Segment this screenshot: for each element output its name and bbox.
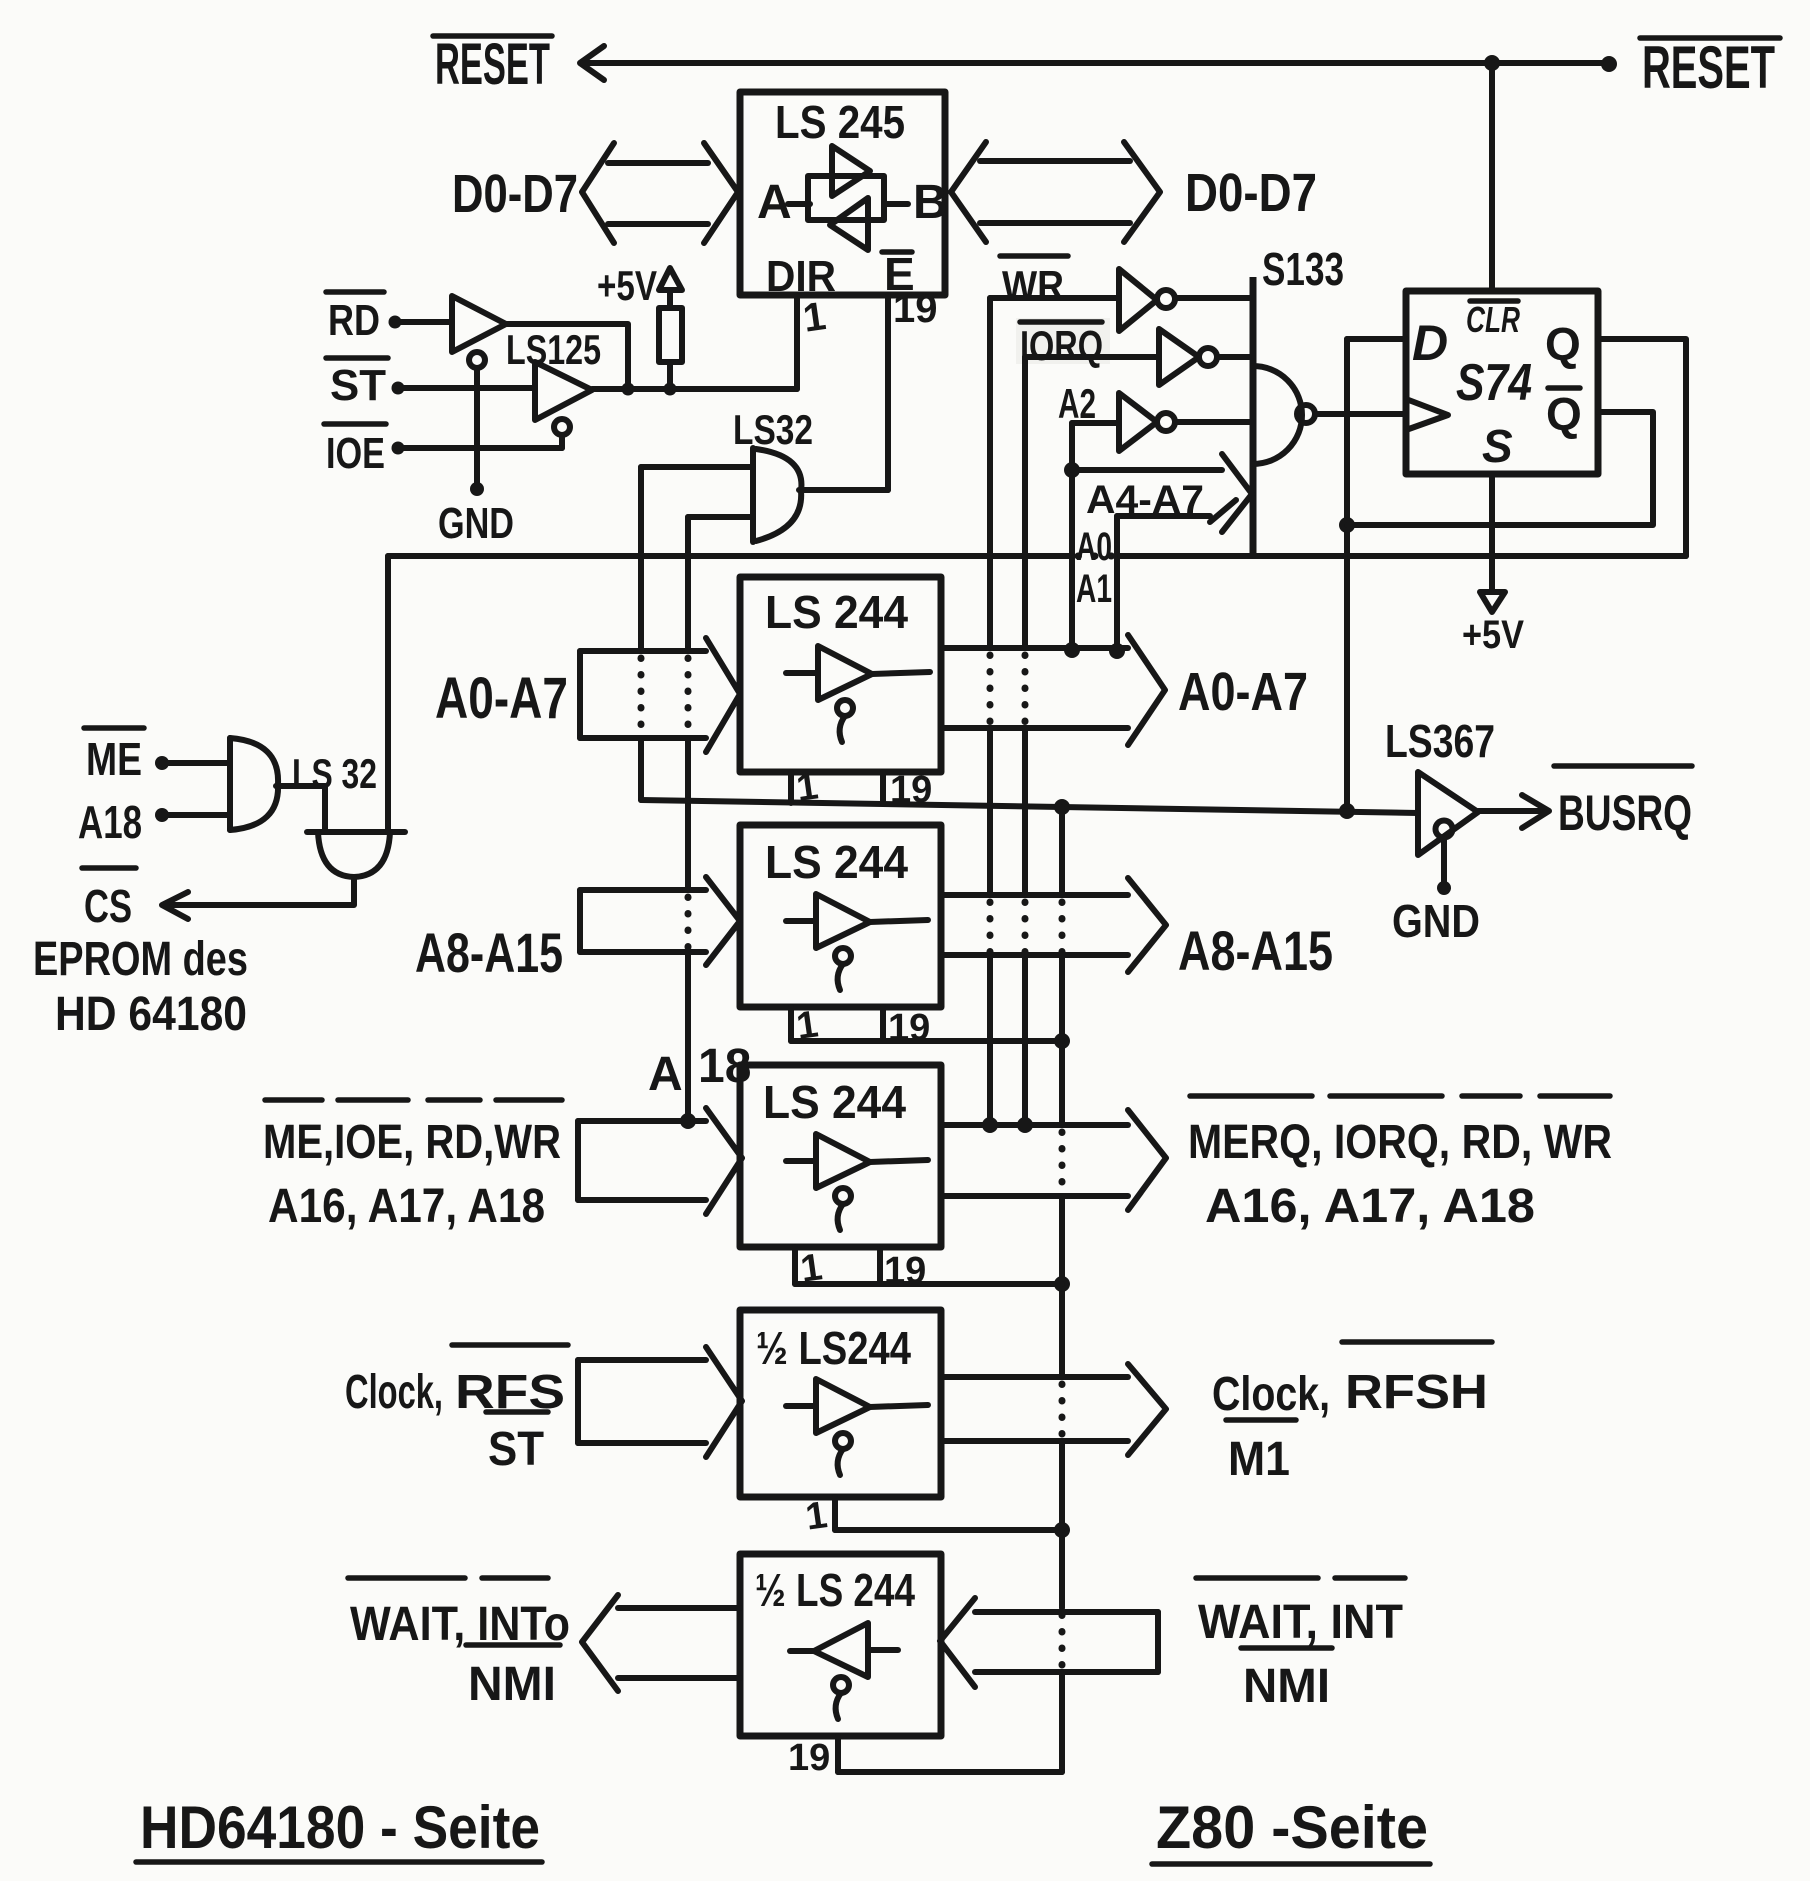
svg-text:Q: Q xyxy=(1545,318,1581,370)
svg-text:A4-A7: A4-A7 xyxy=(1086,478,1204,522)
svg-text:A18: A18 xyxy=(78,796,142,848)
svg-text:LS 244: LS 244 xyxy=(763,1076,906,1128)
svg-text:A0: A0 xyxy=(1076,525,1112,569)
svg-text:LS 244: LS 244 xyxy=(765,586,908,638)
svg-text:19: 19 xyxy=(788,1737,830,1779)
svg-text:HD64180 - Seite: HD64180 - Seite xyxy=(140,1794,540,1861)
svg-text:LS 245: LS 245 xyxy=(775,96,905,148)
svg-text:IORQ: IORQ xyxy=(1020,322,1103,369)
svg-text:A: A xyxy=(648,1048,683,1101)
svg-text:19: 19 xyxy=(893,287,938,331)
svg-text:NMI: NMI xyxy=(1243,1660,1330,1713)
svg-text:ME: ME xyxy=(86,733,142,785)
svg-text:19: 19 xyxy=(890,769,932,811)
svg-text:BUSRQ: BUSRQ xyxy=(1558,785,1692,841)
svg-text:LS 32: LS 32 xyxy=(292,750,377,797)
svg-text:WR: WR xyxy=(1002,262,1064,309)
svg-text:LS 244: LS 244 xyxy=(765,836,908,888)
svg-text:S133: S133 xyxy=(1262,243,1344,295)
svg-text:D0-D7: D0-D7 xyxy=(452,164,578,224)
svg-text:LS367: LS367 xyxy=(1385,715,1495,767)
svg-text:A16, A17, A18: A16, A17, A18 xyxy=(1205,1180,1535,1233)
svg-text:GND: GND xyxy=(1392,895,1480,947)
svg-text:CS: CS xyxy=(84,880,132,932)
svg-text:+5V: +5V xyxy=(1462,613,1524,657)
svg-text:M1: M1 xyxy=(1228,1433,1290,1486)
svg-text:A2: A2 xyxy=(1058,380,1096,427)
svg-text:S74: S74 xyxy=(1456,354,1532,412)
svg-text:GND: GND xyxy=(438,499,514,548)
svg-text:ST: ST xyxy=(330,361,386,410)
svg-text:LS32: LS32 xyxy=(733,406,813,453)
svg-text:Z80 -Seite: Z80 -Seite xyxy=(1156,1794,1428,1861)
svg-text:Clock,: Clock, xyxy=(1212,1368,1330,1421)
svg-text:A0-A7: A0-A7 xyxy=(435,666,568,731)
svg-text:HD 64180: HD 64180 xyxy=(55,988,247,1041)
svg-text:IOE: IOE xyxy=(326,429,385,478)
svg-text:CLR: CLR xyxy=(1466,299,1520,340)
svg-text:DIR: DIR xyxy=(766,252,836,301)
svg-text:A8-A15: A8-A15 xyxy=(1178,919,1333,982)
svg-text:A16, A17, A18: A16, A17, A18 xyxy=(268,1180,545,1233)
svg-text:+5V: +5V xyxy=(597,262,657,309)
svg-text:NMI: NMI xyxy=(468,1658,556,1711)
svg-text:A0-A7: A0-A7 xyxy=(1178,662,1308,722)
svg-text:D0-D7: D0-D7 xyxy=(1185,163,1317,223)
svg-text:WAIT, INT: WAIT, INT xyxy=(1198,1596,1403,1649)
svg-text:EPROM des: EPROM des xyxy=(33,933,248,986)
svg-text:½ LS244: ½ LS244 xyxy=(756,1322,911,1374)
svg-text:LS125: LS125 xyxy=(506,326,601,373)
svg-text:B: B xyxy=(913,176,948,229)
svg-text:Clock,: Clock, xyxy=(345,1366,443,1419)
svg-text:RESET: RESET xyxy=(435,32,550,97)
svg-text:A1: A1 xyxy=(1076,567,1112,611)
svg-text:Q: Q xyxy=(1546,388,1582,440)
svg-text:RESET: RESET xyxy=(1642,34,1775,101)
svg-text:ST: ST xyxy=(488,1423,544,1476)
svg-text:D: D xyxy=(1412,315,1448,371)
svg-text:RFSH: RFSH xyxy=(1345,1366,1488,1419)
svg-text:ME,IOE, RD,WR: ME,IOE, RD,WR xyxy=(263,1116,561,1169)
svg-text:A8-A15: A8-A15 xyxy=(415,921,563,984)
svg-text:½ LS 244: ½ LS 244 xyxy=(755,1564,915,1616)
svg-text:S: S xyxy=(1482,420,1513,472)
svg-text:RD: RD xyxy=(328,296,380,345)
svg-text:MERQ, IORQ, RD, WR: MERQ, IORQ, RD, WR xyxy=(1188,1116,1612,1169)
